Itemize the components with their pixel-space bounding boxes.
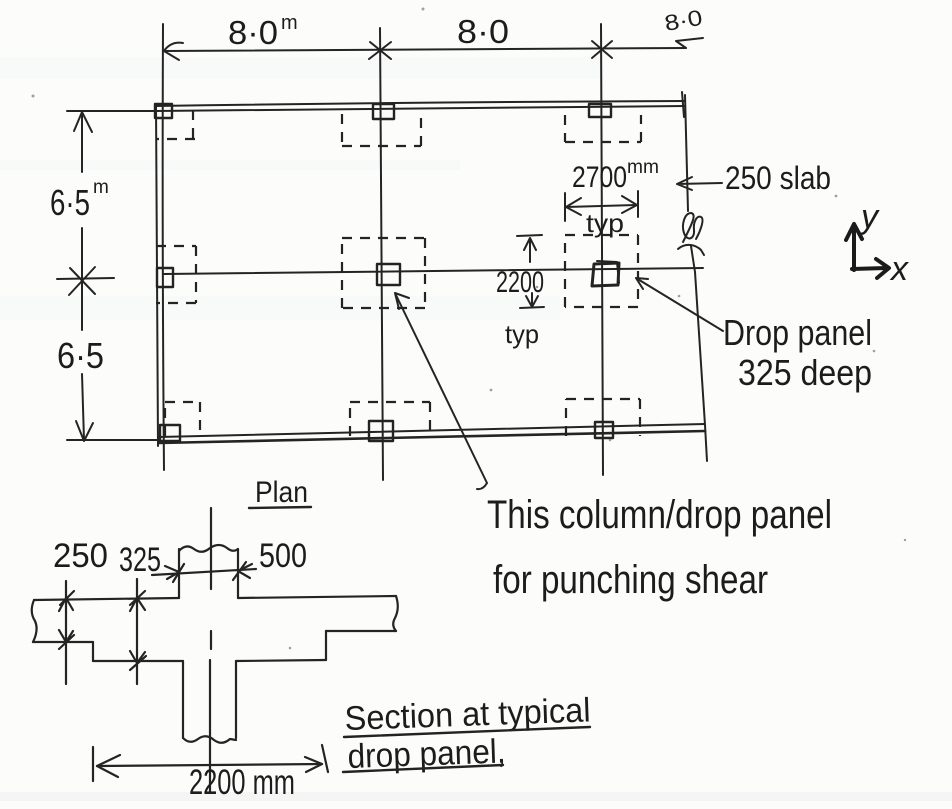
column TM [373,104,394,119]
drop panel BL (half) [165,402,200,436]
underline drop panel [343,765,503,772]
right edge break mark [683,213,702,242]
250 dim line [65,581,67,684]
column BR [595,422,613,438]
drop panel MC (full, punching-shear panel) [342,238,425,308]
middle grid line horizontal [164,268,703,274]
svg-text:for punching shear: for punching shear [493,558,768,602]
svg-text:y: y [859,198,880,236]
column BL [160,425,180,441]
lower column edges [183,661,236,738]
slab bottom left [33,641,93,643]
underline Plan [249,507,311,508]
column TR [589,104,611,117]
svg-text:2200 mm: 2200 mm [189,763,295,802]
svg-text:m: m [93,177,109,198]
svg-text:500: 500 [259,537,307,575]
svg-text:typ: typ [505,319,539,349]
slab bottom right [326,630,396,632]
drop panel TL (half) [156,110,195,139]
grid line B (centre vertical) [380,28,383,480]
slab right wavy end [393,596,398,631]
column ML [157,268,173,287]
svg-text:6·5: 6·5 [57,335,104,376]
upper column left and right edges [179,549,238,598]
left dim bottom arrowhead [76,421,93,441]
svg-text:m: m [281,12,298,34]
svg-text:8·0: 8·0 [228,14,278,51]
column MC [377,264,400,285]
svg-text:Drop panel: Drop panel [723,312,872,353]
section centre line [210,508,212,589]
grid line A (left vertical) [163,24,164,470]
grid line C (right vertical) [601,24,603,475]
svg-text:2200: 2200 [496,266,544,299]
top edge right tick [682,92,684,117]
2700 dimension line with outward arrows [566,205,637,207]
top dim cross at grid C [592,41,612,58]
drop panel bottom right [236,660,326,661]
svg-text:250 slab: 250 slab [725,160,831,196]
slab top edge (double line) [155,101,685,106]
axis arrow y [846,224,862,270]
top edge left extension [67,110,155,112]
slab left wavy end [32,600,37,642]
250 slab leader arrow [677,177,722,190]
drop panel leader arrow [636,278,723,331]
drop panel TM (half) [342,114,421,146]
drop panel MR (full) [565,235,638,307]
svg-text:325: 325 [119,541,161,579]
axis arrow x [852,259,889,278]
325 dim line [136,579,138,684]
drop step right [325,631,327,660]
bottom edge left extension [67,439,159,441]
svg-text:This column/drop panel: This column/drop panel [487,493,832,537]
drop panel bottom left [93,660,183,662]
svg-text:x: x [889,250,909,288]
slab top line [34,596,396,600]
svg-text:250: 250 [53,537,108,575]
left dim middle star [69,267,95,295]
svg-text:8·0: 8·0 [457,13,509,50]
slab right edge (slanted, with break) [685,95,688,211]
left dim top arrowhead [74,112,92,132]
upper column wavy break top [179,545,238,552]
underline Section at typical [344,727,590,737]
svg-text:6·5: 6·5 [50,182,90,223]
left dimension line 6.5m spans [82,112,84,440]
scan specks [422,8,425,11]
punching-shear leader arrow [395,293,487,489]
svg-text:325 deep: 325 deep [738,352,872,393]
column BM [369,421,393,441]
top dim left arrowhead [164,43,183,60]
slab bottom edge (double line) [159,424,705,437]
drop panel BR (half) [566,399,640,436]
500 dimension through line with inward arrows [152,569,256,575]
top dimension line 8.0m spans [164,48,686,51]
top dim right break jog [676,38,703,48]
svg-text:typ: typ [586,208,624,238]
2200 vertical dim upper arrow [517,235,542,262]
svg-text:Plan: Plan [255,476,308,509]
lower column wavy break bottom [183,736,236,743]
svg-text:2700: 2700 [572,161,627,194]
left wall (double line) [156,104,158,446]
column TL [155,104,172,118]
drop panel TR (half) [565,115,641,142]
drop step left [92,642,94,661]
top dim cross at grid B [369,42,391,59]
drop panel BM (half) [350,402,430,436]
middle grid left extension [57,278,114,279]
svg-text:mm: mm [627,157,659,178]
2200mm dim line [97,764,322,766]
drop panel ML (half) [156,246,196,303]
column MR (for punching shear) [592,263,619,286]
2200 vertical dim lower arrow [520,293,544,308]
